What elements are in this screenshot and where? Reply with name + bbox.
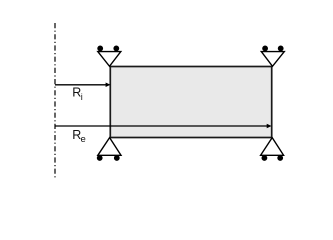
centerline (dash-dot axis) — [54, 23, 56, 178]
arrow R_e (outer radius) — [55, 124, 272, 129]
beam body (gray rectangle) — [110, 67, 271, 138]
support top-right (triangle + rollers) — [261, 46, 284, 67]
svg-text:i: i — [81, 92, 83, 102]
support bottom-right (triangle + rollers) — [261, 138, 284, 161]
arrow R_i (inner radius) — [55, 83, 111, 88]
support top-left (triangle + rollers) — [97, 46, 121, 67]
support bottom-left (triangle + rollers) — [97, 138, 121, 161]
svg-text:e: e — [81, 134, 86, 145]
